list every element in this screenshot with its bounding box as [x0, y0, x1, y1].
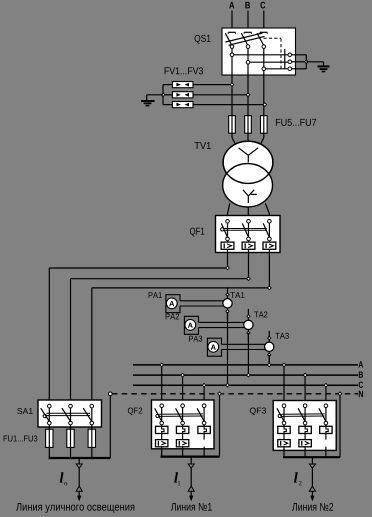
- QS1 pole 3 hinge contact: [262, 45, 266, 49]
- busbar C: [133, 384, 358, 386]
- SA1 pole 3 upper contact: [90, 404, 94, 408]
- QF2 pole 2 upper contact: [181, 404, 185, 408]
- busbar N label: [359, 391, 363, 397]
- QF3 pole 1 wire: [283, 408, 285, 451]
- QF1 pole 1 overcurrent release: [221, 242, 234, 249]
- QF2 linkage bars: [159, 414, 203, 417]
- wire bus tap to QF3 pole 3: [325, 385, 327, 404]
- SA1 pole 2 wire: [70, 408, 72, 429]
- node C label: [260, 2, 265, 9]
- SA1 outgoing line arrowhead: [77, 496, 81, 502]
- circuit breaker QF2 enclosure: [152, 400, 215, 449]
- busbar B: [133, 374, 358, 376]
- busbar B label: [359, 372, 363, 378]
- QF1 linkage hinge: [221, 228, 224, 231]
- line 1 outgoing collector bar: [161, 456, 220, 458]
- QF2 pole 2 thermal release: [176, 426, 188, 433]
- TV1 wye symbol primary: [239, 148, 258, 163]
- busbar N dashed: [112, 393, 358, 395]
- QF1 pole 2 wire: [248, 223, 250, 253]
- QF2 pole 1 blade: [155, 408, 162, 421]
- QF2 pole 3 upper contact: [202, 404, 206, 408]
- wire FV3 to phase C: [193, 104, 265, 106]
- line 2 outgoing feeder wire: [311, 457, 313, 496]
- wire N drop to QF2: [219, 394, 221, 457]
- QS1 pole 3 branch contact: [262, 67, 266, 71]
- node above TA3: [268, 337, 271, 340]
- node above TA1: [226, 293, 229, 296]
- FU5...FU7 label: [276, 119, 316, 126]
- node A label: [229, 2, 234, 9]
- QS1 pole 2 blade: [241, 33, 248, 45]
- line 2 outgoing arrowhead: [310, 496, 314, 502]
- ammeter PA2: [185, 320, 196, 331]
- QF1 pole 1 upper contact: [226, 220, 230, 224]
- wire bus tap to QF2 pole 3: [203, 385, 205, 404]
- wire TA2 secondary loop: [184, 316, 248, 334]
- wire bus tap to QF2 pole 2: [182, 375, 184, 404]
- arrester FV2: [172, 92, 193, 98]
- line 2 outgoing length label: [294, 472, 302, 485]
- QS1 pole 2 hinge contact: [246, 45, 250, 49]
- SA1 outgoing line caption: [16, 503, 134, 513]
- QF3 pole 2 blade: [298, 408, 305, 421]
- node above TA2: [247, 315, 250, 318]
- QS1 label: [195, 35, 211, 44]
- QF1 pole 3 lower contact: [268, 237, 272, 241]
- wire phase B input: [247, 11, 249, 32]
- SA1 outgoing line cable mark lower: [76, 486, 82, 491]
- wire phase A mid: [231, 75, 233, 116]
- QF1 linkage bars: [224, 229, 267, 231]
- QF1 pole 2 upper contact: [247, 220, 251, 224]
- line 2 outgoing cable mark upper: [309, 464, 315, 468]
- SA1 linkage hinge: [43, 414, 46, 417]
- wire QF1 pole 2 down: [248, 253, 250, 279]
- wire to FV ground: [147, 95, 163, 101]
- QF3 pole 2 electromagnetic release: [299, 440, 311, 447]
- QF2 pole 3 blade: [197, 408, 204, 421]
- TA1 label: [230, 292, 244, 298]
- ground at QS1: [318, 66, 330, 71]
- QF3 linkage bars: [281, 414, 324, 417]
- TV1 label: [195, 142, 211, 149]
- disconnector QS1 enclosure: [222, 28, 296, 75]
- line 2 outgoing cable mark lower: [309, 486, 315, 491]
- node FV common junction: [161, 93, 165, 97]
- wire fuse B to TV1: [247, 133, 249, 142]
- QS1 pole 1 hinge contact: [230, 45, 234, 49]
- line 2 outgoing collector bar: [283, 456, 340, 458]
- wire QS1 pole1 to earth contact: [234, 54, 288, 56]
- SA1 pole 1 lower contact: [48, 421, 52, 425]
- wire QS1 pole3 to earth contact: [266, 68, 288, 70]
- QF2 pole 2 blade: [176, 408, 183, 421]
- SA1 label: [17, 408, 32, 414]
- fuse FU2: [67, 429, 74, 458]
- node B label: [245, 2, 250, 9]
- line 1 outgoing cable mark upper: [188, 464, 194, 468]
- QF1 pole 2 lower contact: [247, 237, 251, 241]
- QF2 pole 3 wire: [203, 408, 205, 449]
- node QF3 N tap: [338, 392, 342, 396]
- busbar A: [133, 364, 358, 366]
- QF3 linkage hinge: [278, 414, 281, 417]
- SA1 pole 3 wire: [91, 408, 93, 429]
- QF1 pole 1 blade: [221, 223, 227, 237]
- node below TA3: [268, 353, 271, 356]
- QF3 pole 2 upper contact: [303, 404, 307, 408]
- wire QF3 outputs to bar: [284, 449, 326, 457]
- node FV-B junction: [246, 93, 250, 97]
- TA3 label: [275, 333, 289, 339]
- QS1 tie bar: [226, 33, 265, 45]
- wire bus tap to QF2 pole 1: [161, 365, 163, 405]
- wire TA3 secondary loop: [207, 338, 269, 356]
- SA1 pole 1 blade: [41, 408, 50, 421]
- node phase B on bus B: [247, 373, 251, 377]
- SA1 pole 2 lower contact: [69, 421, 73, 425]
- current transformer TA1: [223, 299, 232, 308]
- line 1 outgoing cable mark lower: [188, 486, 194, 491]
- SA1 linkage bars: [46, 413, 90, 415]
- wire bus tap to QF3 pole 1: [283, 365, 285, 405]
- wire N drop to QF3: [339, 394, 341, 457]
- QF3 label: [250, 408, 266, 416]
- node QF3 tap 1: [282, 363, 286, 367]
- node branch 2 junction: [247, 277, 251, 281]
- wire QF1 pole 3 down: [268, 253, 270, 288]
- wire branch 3 to SA1: [92, 288, 270, 405]
- SA1 pole 3 lower contact: [90, 421, 94, 425]
- busbar A label: [358, 361, 363, 367]
- SA1 outgoing line collector bar: [49, 457, 111, 459]
- QF3 pole 2 thermal release: [299, 426, 311, 433]
- node QF3 tap 2: [303, 373, 307, 377]
- node QF2 tap 2: [181, 373, 185, 377]
- QF3 pole 1 electromagnetic release: [278, 440, 290, 447]
- line 1 outgoing feeder wire: [190, 457, 192, 497]
- wire phase through TA3: [268, 331, 270, 363]
- node below TA2: [247, 331, 250, 334]
- QF2 linkage hinge: [156, 414, 159, 417]
- SA1 outgoing line length label: [60, 472, 67, 485]
- QS1 earth contact 2: [288, 60, 292, 64]
- wire bus tap to QF3 pole 2: [304, 375, 306, 404]
- node FV-A junction: [230, 83, 234, 87]
- wire FV common: [163, 85, 172, 105]
- node branch 3 junction: [268, 286, 272, 290]
- wire phase B to bus B: [247, 333, 249, 375]
- line 1 outgoing length label: [174, 472, 180, 485]
- wire QF2 outputs to bar: [162, 449, 204, 457]
- QF2 pole 2 lower contact: [181, 421, 185, 425]
- wire phase B mid: [247, 75, 249, 116]
- wire phase C mid: [263, 75, 265, 116]
- QF3 pole 1 lower contact: [282, 421, 286, 425]
- wire branch 2 to SA1: [71, 279, 249, 405]
- wire phase C to bus A: [268, 355, 270, 365]
- line 1 outgoing caption: [171, 503, 212, 511]
- node phase C on bus A: [267, 363, 271, 367]
- QS1 pole 2 branch contact: [246, 60, 250, 64]
- QS1 pole 1 branch contact: [230, 53, 234, 57]
- wire QF1 pole 1 down: [227, 253, 229, 269]
- node busbar N left end: [109, 392, 113, 396]
- line 1 outgoing arrowhead: [189, 496, 193, 502]
- QS1 pole 3 blade: [257, 33, 264, 45]
- node FV-C junction: [263, 103, 267, 107]
- QF2 pole 1 thermal release: [156, 426, 168, 433]
- QS1 pole 1 fixed contact bar: [228, 32, 235, 34]
- SA1 outgoing line feeder wire: [78, 458, 80, 497]
- wire fuse C to TV1: [260, 133, 263, 144]
- QF3 pole 1 upper contact: [282, 404, 286, 408]
- QF3 pole 3 lower contact: [324, 421, 328, 425]
- QF2 pole 1 electromagnetic release: [156, 440, 168, 447]
- wire TV1 to QF1 pole1: [228, 203, 230, 219]
- SA1 outgoing line cable mark upper: [76, 464, 82, 468]
- node QF2 tap 1: [160, 363, 164, 367]
- QF3 pole 3 wire: [325, 408, 327, 451]
- wire phase A input: [231, 11, 233, 32]
- arrester FV3: [172, 102, 193, 108]
- node below TA1: [226, 310, 229, 313]
- wire phase A to bus C: [227, 312, 229, 385]
- QS1 earthing link dashed: [264, 38, 282, 69]
- QF3 pole 1 blade: [277, 408, 284, 421]
- fuse FU7: [261, 116, 268, 134]
- QF3 pole 2 lower contact: [303, 421, 307, 425]
- QF2 pole 3 thermal release: [198, 426, 210, 433]
- SA1 pole 1 wire: [48, 408, 50, 429]
- FU1...FU3 label: [4, 435, 38, 441]
- circuit breaker QF1 enclosure: [216, 216, 281, 253]
- QF1 pole 2 blade: [242, 223, 248, 237]
- current transformer TA2: [244, 320, 253, 329]
- wire earth contacts collector: [292, 55, 307, 69]
- wire TV1 to QF1 pole2: [247, 207, 249, 220]
- wire N drop to SA1: [109, 396, 111, 458]
- QS1 pole 1 blade: [225, 33, 232, 45]
- QF1 pole 2 overcurrent release: [242, 242, 255, 249]
- node phase A on bus C: [226, 383, 230, 387]
- QF3 pole 3 thermal release: [320, 426, 332, 433]
- wire QS1 pole2 to earth contact: [250, 61, 288, 63]
- QF1 pole 3 blade: [263, 223, 269, 237]
- wire FV1 to phase A: [193, 84, 232, 86]
- current transformer TA3: [265, 342, 274, 351]
- QF3 pole 2 wire: [304, 408, 306, 451]
- TV1 wye-n symbol secondary: [243, 190, 257, 203]
- busbar C label: [359, 382, 364, 388]
- arrester FV1: [172, 82, 193, 88]
- QF2 pole 1 lower contact: [160, 421, 164, 425]
- wire phase C input: [263, 11, 265, 32]
- QS1 earth contact 3: [288, 67, 292, 71]
- PA2 label: [166, 313, 179, 319]
- node earth collector junction: [305, 60, 309, 64]
- PA3 label: [189, 336, 202, 342]
- wire to QS1 ground: [306, 62, 323, 66]
- ground at FV: [141, 101, 154, 106]
- line 2 outgoing caption: [292, 503, 333, 511]
- QS1 pole 3 wire down: [263, 48, 265, 75]
- FV1...FV3 label: [165, 67, 203, 74]
- wire branch 1 to SA1: [49, 268, 227, 404]
- QF2 pole 2 electromagnetic release: [176, 440, 188, 447]
- QF1 pole 1 lower contact: [226, 237, 230, 241]
- QS1 pole 1 wire down: [231, 48, 233, 75]
- QF2 pole 1 wire: [161, 408, 163, 449]
- QF2 pole 1 upper contact: [160, 404, 164, 408]
- wire phase through TA2: [247, 309, 249, 341]
- QF1 pole 3 wire: [268, 223, 270, 253]
- QF1 pole 1 wire: [227, 223, 229, 253]
- wire phase through TA1: [227, 287, 229, 319]
- node QF2 tap 3: [202, 383, 206, 387]
- QF1 pole 3 upper contact: [268, 220, 272, 224]
- ammeter PA3: [208, 341, 219, 352]
- QS1 pole 2 fixed contact bar: [244, 32, 251, 34]
- wire TA1 secondary loop: [166, 295, 228, 313]
- QF2 pole 3 lower contact: [202, 421, 206, 425]
- QF1 pole 3 overcurrent release: [263, 242, 276, 249]
- QF1 label: [190, 228, 204, 237]
- node QF2 N tap: [218, 392, 222, 396]
- PA1 label: [149, 292, 162, 298]
- ammeter PA1: [166, 298, 177, 309]
- SA1 pole 3 blade: [83, 408, 92, 421]
- fuse FU3: [88, 429, 95, 458]
- QS1 earth contact 1: [288, 53, 292, 57]
- TA2 label: [254, 311, 267, 317]
- node QF3 tap 3: [324, 383, 328, 387]
- wire TV1 to QF1 pole3: [265, 203, 269, 219]
- QF3 pole 3 blade: [319, 408, 326, 421]
- circuit breaker QF3 enclosure: [273, 401, 336, 451]
- SA1 pole 2 upper contact: [69, 404, 73, 408]
- QF3 pole 1 thermal release: [278, 426, 290, 433]
- fuse FU6: [245, 116, 252, 134]
- QF3 pole 3 upper contact: [324, 404, 328, 408]
- SA1 pole 2 blade: [62, 408, 71, 421]
- QS1 pole 3 fixed contact bar: [260, 32, 267, 34]
- fuse FU5: [229, 116, 236, 134]
- transformer TV1 primary winding: [223, 141, 273, 183]
- switch SA1 enclosure: [38, 400, 102, 427]
- QF2 pole 2 wire: [182, 408, 184, 449]
- QS1 earthing tie bar: [284, 49, 286, 69]
- QF2 label: [128, 408, 142, 416]
- node branch 1 junction: [226, 266, 230, 270]
- transformer TV1 secondary winding: [223, 141, 273, 207]
- wire fuse A to TV1: [232, 133, 236, 144]
- fuse FU1: [46, 429, 53, 458]
- wire FV2 to phase B: [193, 94, 248, 96]
- SA1 pole 1 upper contact: [48, 404, 52, 408]
- QS1 pole 2 wire down: [247, 48, 249, 75]
